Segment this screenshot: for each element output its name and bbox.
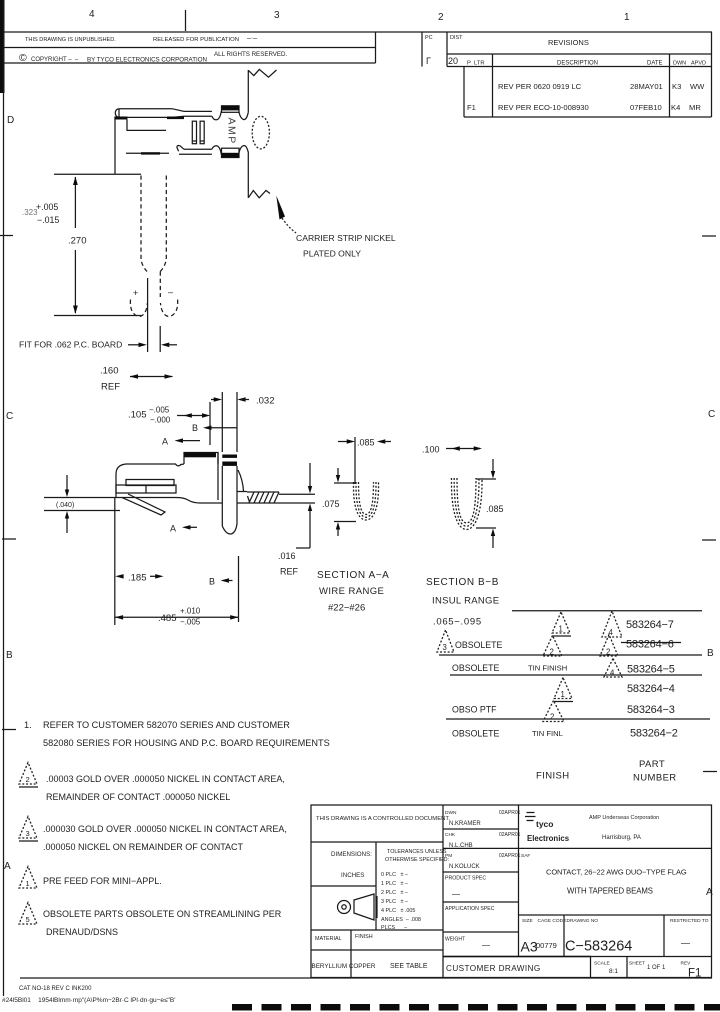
svg-text:00779: 00779 (536, 941, 557, 950)
svg-text:4 PLC ± .005: 4 PLC ± .005 (381, 908, 415, 914)
svg-text:WITH TAPERED BEAMS: WITH TAPERED BEAMS (567, 887, 653, 896)
svg-text:COPYRIGHT – –: COPYRIGHT – – (31, 57, 79, 63)
tyco logo (525, 813, 536, 821)
svg-text:2: 2 (606, 648, 610, 657)
carrier pilot hole (oval) (252, 116, 269, 149)
svg-text:4: 4 (609, 628, 614, 637)
body bottom line + extension (54, 173, 141, 175)
svg-text:.000030 GOLD OVER .000050 NICK: .000030 GOLD OVER .000050 NICKEL IN CONT… (43, 824, 287, 834)
svg-text:07FEB10: 07FEB10 (630, 103, 662, 112)
svg-text:MR: MR (689, 103, 701, 112)
svg-text:APVD: APVD (691, 61, 706, 67)
svg-text:SIZE: SIZE (522, 918, 533, 924)
top crimp plate (222, 106, 240, 113)
footer scan artifacts (2, 986, 720, 1011)
flag beam (mating slot) (115, 109, 184, 118)
svg-text:−.015: −.015 (37, 215, 59, 225)
carrier bottom break zigzag (248, 191, 270, 198)
svg-text:.185: .185 (128, 573, 147, 584)
svg-text:.085: .085 (357, 438, 375, 448)
svg-text:PRODUCT SPEC: PRODUCT SPEC (445, 876, 486, 882)
PC tail rounded tip (222, 524, 237, 534)
svg-text:SCALE: SCALE (594, 961, 610, 967)
svg-text:02APR01: 02APR01 (499, 832, 521, 838)
svg-text:REV: REV (681, 961, 692, 967)
svg-text:1: 1 (559, 625, 563, 634)
svg-text:K4: K4 (671, 103, 680, 112)
svg-text:A: A (170, 524, 176, 534)
PC tail right edge (236, 392, 238, 452)
SIDE VIEW (116, 392, 315, 534)
bottom neck bar with hook (177, 146, 184, 152)
revisions table (422, 32, 712, 117)
retention lance (122, 494, 165, 515)
svg-text:B: B (209, 577, 215, 587)
svg-text:OBSOLETE PARTS OBSOLETE ON STR: OBSOLETE PARTS OBSOLETE ON STREAMLINING … (43, 909, 282, 919)
svg-text:FINISH: FINISH (536, 771, 570, 782)
svg-text:–·–: –·– (247, 35, 257, 42)
svg-text:REFER TO CUSTOMER 582070 SERIE: REFER TO CUSTOMER 582070 SERIES AND CUST… (43, 720, 290, 730)
svg-text:PRE FEED FOR MINI−APPL.: PRE FEED FOR MINI−APPL. (43, 876, 162, 886)
svg-text:.00003 GOLD OVER .000050 NICKE: .00003 GOLD OVER .000050 NICKEL IN CONTA… (46, 774, 285, 784)
dimension: fit for .062 pc board (19, 340, 177, 350)
leg tip left (dashed) (130, 300, 147, 317)
svg-text:B: B (707, 648, 714, 659)
svg-text:3: 3 (443, 643, 447, 652)
svg-text:583264−6: 583264−6 (626, 639, 674, 651)
unpublished notice box (4, 32, 376, 64)
TOP VIEW: flag contact plan view (54, 106, 248, 175)
svg-text:©: © (19, 52, 27, 64)
zone edge ticks left (0, 235, 13, 237)
svg-text:.016: .016 (278, 551, 296, 561)
svg-text:#24l5Bl01 1954lBlmm·mp"(A\P: #24l5Bl01 1954lBlmm·mp"(A\P%m−2Br·C lPl·… (2, 997, 175, 1004)
svg-text:DRAWING NO: DRAWING NO (567, 918, 599, 924)
svg-text:582080 SERIES FOR HOUSING AND: 582080 SERIES FOR HOUSING AND P.C. BOARD… (43, 738, 330, 748)
svg-text:WW: WW (690, 82, 705, 91)
table rule 3 (450, 674, 702, 676)
raised flag tab (184, 453, 218, 465)
svg-text:DRENAUD/DSNS: DRENAUD/DSNS (46, 927, 118, 937)
svg-text:K3: K3 (672, 82, 681, 91)
svg-text:AMP Underseas Corporation: AMP Underseas Corporation (589, 815, 659, 821)
body left edge (114, 117, 116, 174)
svg-text:583264−5: 583264−5 (627, 664, 675, 676)
svg-text:20: 20 (448, 56, 458, 66)
svg-text:OBSOLETE: OBSOLETE (455, 640, 503, 650)
svg-text:583264−4: 583264−4 (627, 683, 675, 695)
svg-text:F1: F1 (467, 103, 476, 112)
svg-text:OTHERWISE SPECIFIED:: OTHERWISE SPECIFIED: (385, 857, 449, 863)
svg-text:2: 2 (26, 775, 30, 784)
svg-text:THIS DRAWING IS UNPUBLISHED.: THIS DRAWING IS UNPUBLISHED. (25, 37, 116, 43)
svg-text:+.005: +.005 (36, 202, 58, 212)
svg-text:REF: REF (280, 567, 299, 577)
svg-text:.100: .100 (422, 445, 440, 455)
svg-text:C: C (708, 409, 715, 420)
svg-text:.270: .270 (68, 236, 87, 247)
leader arrow to carrier (276, 196, 285, 220)
body top edge (126, 464, 184, 466)
note triangle 5 (19, 903, 37, 925)
svg-text:TOLERANCES UNLESS: TOLERANCES UNLESS (387, 849, 447, 855)
svg-text:Γ: Γ (426, 56, 431, 66)
svg-text:−.000: −.000 (150, 416, 171, 425)
svg-text:PART: PART (639, 759, 665, 770)
svg-text:.160: .160 (100, 366, 119, 377)
note triangle 1 (19, 867, 37, 889)
svg-text:OBSOLETE: OBSOLETE (452, 729, 500, 739)
svg-text:.105: .105 (128, 410, 147, 421)
svg-text:.065−.095: .065−.095 (433, 617, 482, 628)
SECTION B-B (422, 445, 504, 589)
svg-text:F1: F1 (688, 968, 701, 980)
body left edge (115, 474, 117, 498)
svg-text:AMP: AMP (226, 118, 238, 145)
svg-text:INSUL RANGE: INSUL RANGE (432, 596, 499, 607)
beam left cap line (118, 109, 120, 118)
svg-text:0 PLC ± –: 0 PLC ± – (381, 872, 408, 878)
svg-text:.000050 NICKEL ON REMAINDER OF: .000050 NICKEL ON REMAINDER OF CONTACT (43, 842, 244, 852)
side view dimensions (44, 396, 312, 627)
svg-text:CHK: CHK (445, 832, 456, 838)
bottom border line (20, 977, 712, 979)
svg-text:FINISH: FINISH (355, 934, 373, 940)
svg-text:SECTION B−B: SECTION B−B (426, 577, 499, 588)
svg-text:INCHES: INCHES (341, 872, 364, 879)
ear bottom left (212, 146, 221, 155)
finish col triangles group1 (552, 612, 570, 633)
svg-text:ANGLES – .008: ANGLES – .008 (381, 917, 421, 923)
svg-text:+: + (133, 288, 138, 298)
svg-text:Harrisburg, PA: Harrisburg, PA (602, 835, 641, 841)
SECTION A-A (317, 437, 391, 614)
row 583264-4 (554, 678, 572, 699)
svg-text:TIN FINL: TIN FINL (532, 729, 563, 738)
parts selection table (432, 596, 710, 784)
svg-text:WIRE RANGE: WIRE RANGE (319, 586, 384, 597)
table rule 4 (446, 718, 710, 720)
svg-text:2: 2 (550, 713, 554, 722)
svg-text:REV PER 0620 0919 LC: REV PER 0620 0919 LC (498, 82, 582, 91)
svg-text:SAF: SAF (521, 853, 530, 859)
leg center line solid (147, 278, 149, 352)
table rule 1 (512, 610, 702, 612)
svg-text:8:1: 8:1 (609, 968, 618, 975)
svg-text:CARRIER STRIP NICKEL: CARRIER STRIP NICKEL (296, 233, 396, 243)
zone edge ticks right (702, 235, 716, 237)
svg-text:C−583264: C−583264 (565, 939, 632, 955)
ext line (354, 437, 356, 484)
svg-text:REF: REF (101, 382, 120, 393)
svg-text:DESCRIPTION: DESCRIPTION (557, 61, 598, 67)
U crimp inner (359, 482, 374, 515)
zone tick top (185, 10, 187, 31)
right leg dashed (160, 176, 166, 272)
svg-text:MATERIAL: MATERIAL (315, 936, 342, 942)
svg-text:DATE: DATE (647, 61, 663, 67)
part triangle 4 row1 (602, 611, 622, 637)
svg-text:.085: .085 (486, 504, 504, 514)
board seat line (54, 315, 141, 317)
svg-text:28MAY01: 28MAY01 (630, 82, 663, 91)
bottom punch dashes (232, 1004, 252, 1011)
svg-text:−.005: −.005 (180, 618, 201, 627)
svg-text:N.KOLUCK: N.KOLUCK (449, 864, 480, 870)
svg-text:583264−2: 583264−2 (630, 728, 678, 740)
svg-text:—: — (681, 938, 690, 948)
dim .016 REF (309, 463, 311, 489)
left border line (3, 0, 5, 996)
carrier left edge upper (247, 70, 249, 113)
svg-text:REVISIONS: REVISIONS (548, 38, 589, 47)
size / cage / drawing no row (519, 914, 712, 916)
svg-text:FIT FOR .062 P.C. BOARD: FIT FOR .062 P.C. BOARD (19, 340, 122, 350)
svg-text:B: B (192, 423, 198, 433)
svg-text:A: A (4, 861, 11, 872)
svg-text:−.005: −.005 (149, 406, 170, 415)
dim .185 (114, 498, 116, 625)
svg-text:REV PER ECO-10-008930: REV PER ECO-10-008930 (498, 103, 589, 112)
svg-text:2: 2 (438, 12, 444, 23)
note triangle 3 (19, 817, 37, 839)
svg-text:A: A (162, 437, 168, 447)
svg-text:tyco: tyco (536, 819, 553, 829)
svg-text:DIST: DIST (450, 35, 463, 41)
ear top right (239, 112, 248, 119)
PC tail left edge (221, 392, 223, 452)
svg-text:B: B (6, 650, 13, 661)
svg-text:4: 4 (89, 9, 95, 20)
svg-text:CUSTOMER DRAWING: CUSTOMER DRAWING (446, 964, 541, 973)
svg-text:DIMENSIONS:: DIMENSIONS: (331, 851, 372, 858)
inner contact slot (126, 480, 174, 486)
left border thick bar (0, 0, 5, 93)
svg-text:BERYLLIUM COPPER: BERYLLIUM COPPER (312, 963, 376, 970)
body mid line (126, 152, 169, 154)
svg-text:P LTR: P LTR (467, 61, 485, 67)
dark smudge under beam right (167, 117, 184, 120)
tail seam bands (222, 455, 237, 458)
contact pictogram (338, 901, 351, 914)
carrier left edge lower (247, 152, 249, 198)
svg-text:DWN: DWN (445, 810, 457, 816)
note triangle 2 (19, 763, 37, 785)
svg-text:WEIGHT: WEIGHT (445, 937, 465, 943)
svg-text:583264−3: 583264−3 (627, 704, 675, 716)
outer box (311, 805, 712, 978)
svg-text:SECTION A−A: SECTION A−A (317, 570, 389, 581)
svg-text:OBSO PTF: OBSO PTF (452, 705, 497, 715)
dim .085 (338, 441, 351, 443)
svg-text:OBSOLETE: OBSOLETE (452, 663, 500, 673)
svg-text:02APR01: 02APR01 (499, 810, 521, 816)
hidden PC legs (dashed) (54, 176, 178, 353)
svg-text:SEE TABLE: SEE TABLE (390, 963, 428, 970)
barrel top line (237, 491, 247, 493)
svg-text:–: – (168, 287, 173, 297)
carrier top break zigzag (248, 69, 276, 77)
body bottom contour (116, 498, 222, 504)
svg-text:3: 3 (274, 10, 280, 21)
title block (311, 805, 712, 980)
U crimp outer (451, 478, 482, 530)
svg-text:PC: PC (425, 35, 433, 41)
svg-text:2 PLC ± –: 2 PLC ± – (381, 890, 408, 896)
svg-text:—: — (482, 941, 490, 950)
dim .075 (334, 482, 356, 484)
crimped wire barrel hatch (247, 492, 279, 503)
bottom crimp plate (222, 148, 240, 157)
leg tip right (dashed) (161, 300, 178, 317)
material / finish cells (311, 929, 443, 931)
svg-text:BY TYCO ELECTRONICS CORPORATIO: BY TYCO ELECTRONICS CORPORATION (87, 57, 207, 64)
svg-text:1 OF 1: 1 OF 1 (647, 965, 666, 971)
dimension .160 REF (100, 366, 173, 393)
svg-text:TIN FINISH: TIN FINISH (528, 664, 567, 673)
svg-text:RELEASED FOR PUBLICATION: RELEASED FOR PUBLICATION (153, 37, 239, 43)
U crimp outer (353, 482, 378, 520)
dim .032 tail width (211, 399, 218, 401)
neck bar top (184, 110, 212, 112)
svg-text:THIS DRAWING IS A CONTROLLED D: THIS DRAWING IS A CONTROLLED DOCUMENT. (316, 816, 450, 822)
svg-text:—: — (452, 890, 460, 899)
svg-text:1: 1 (26, 879, 30, 888)
notes (19, 720, 330, 937)
part triangle 2 row2 (600, 635, 618, 657)
wire barrel tab right (200, 121, 204, 144)
svg-text:3 PLC ± –: 3 PLC ± – (381, 899, 408, 905)
carrier strip (248, 69, 396, 258)
dim .085 (476, 478, 496, 480)
svg-text:+.010: +.010 (180, 607, 201, 616)
svg-text:RESTRICTED TO: RESTRICTED TO (670, 918, 709, 924)
svg-text:1: 1 (624, 12, 630, 23)
svg-text:CAT NO-18 REV C INK200: CAT NO-18 REV C INK200 (19, 986, 92, 992)
svg-text:PLATED ONLY: PLATED ONLY (303, 249, 361, 259)
svg-text:3: 3 (26, 829, 30, 838)
svg-text:CONTACT, 26−22 AWG DUO−TYPE FL: CONTACT, 26−22 AWG DUO−TYPE FLAG (546, 868, 687, 877)
svg-text:1 PLC ± –: 1 PLC ± – (381, 881, 408, 887)
svg-text:.075: .075 (322, 499, 340, 509)
svg-text:1: 1 (561, 690, 565, 699)
svg-text:D: D (7, 115, 14, 126)
svg-text:.032: .032 (256, 396, 275, 407)
controlled document cell (311, 841, 443, 843)
approvals column (518, 805, 520, 957)
wire lines (279, 493, 315, 495)
svg-text:SHEET: SHEET (629, 961, 645, 967)
svg-text:4: 4 (610, 669, 615, 678)
body lower box (116, 485, 176, 493)
ear bottom right (239, 146, 248, 153)
U crimp inner (457, 478, 476, 523)
top border line (3, 31, 712, 33)
svg-text:.485: .485 (158, 613, 177, 624)
svg-text:C: C (6, 411, 13, 422)
svg-text:02APR01: 02APR01 (499, 853, 521, 859)
table rule 2 (439, 654, 702, 656)
body behind tail (217, 453, 219, 501)
svg-text:ALL RIGHTS RESERVED.: ALL RIGHTS RESERVED. (214, 51, 288, 58)
body top-left corner (116, 464, 126, 474)
left leg dashed (141, 176, 147, 272)
svg-text:1.: 1. (24, 720, 32, 730)
svg-text:APPLICATION SPEC: APPLICATION SPEC (445, 906, 495, 912)
svg-text:PM: PM (445, 853, 452, 859)
dim (.040) (44, 497, 116, 499)
dark smudge top-left of body (114, 117, 127, 120)
svg-text:5: 5 (26, 915, 30, 924)
wire barrel tab left (192, 121, 196, 144)
svg-text:DWN: DWN (673, 61, 686, 67)
svg-text:Electronics: Electronics (527, 834, 570, 843)
main divider (442, 805, 444, 977)
dimensions cell (375, 842, 377, 930)
bottom row (443, 956, 712, 958)
svg-text:CAGE CODE: CAGE CODE (538, 918, 567, 924)
svg-text:583264−7: 583264−7 (626, 619, 674, 631)
dimension .270 with board tolerance (22, 177, 87, 315)
svg-text:2: 2 (550, 648, 554, 657)
svg-text:N.KRAMER: N.KRAMER (449, 821, 481, 827)
svg-text:REMAINDER OF CONTACT .000050 N: REMAINDER OF CONTACT .000050 NICKEL (46, 792, 230, 802)
neck-to-crimp ear top left (212, 111, 221, 120)
svg-text:NUMBER: NUMBER (633, 773, 677, 784)
note triangle 3 obsolete row (437, 630, 454, 652)
body inner step (127, 120, 166, 131)
svg-text:(.040): (.040) (56, 502, 74, 509)
svg-text:#22−#26: #22−#26 (328, 603, 365, 614)
dim .485 (238, 556, 240, 622)
